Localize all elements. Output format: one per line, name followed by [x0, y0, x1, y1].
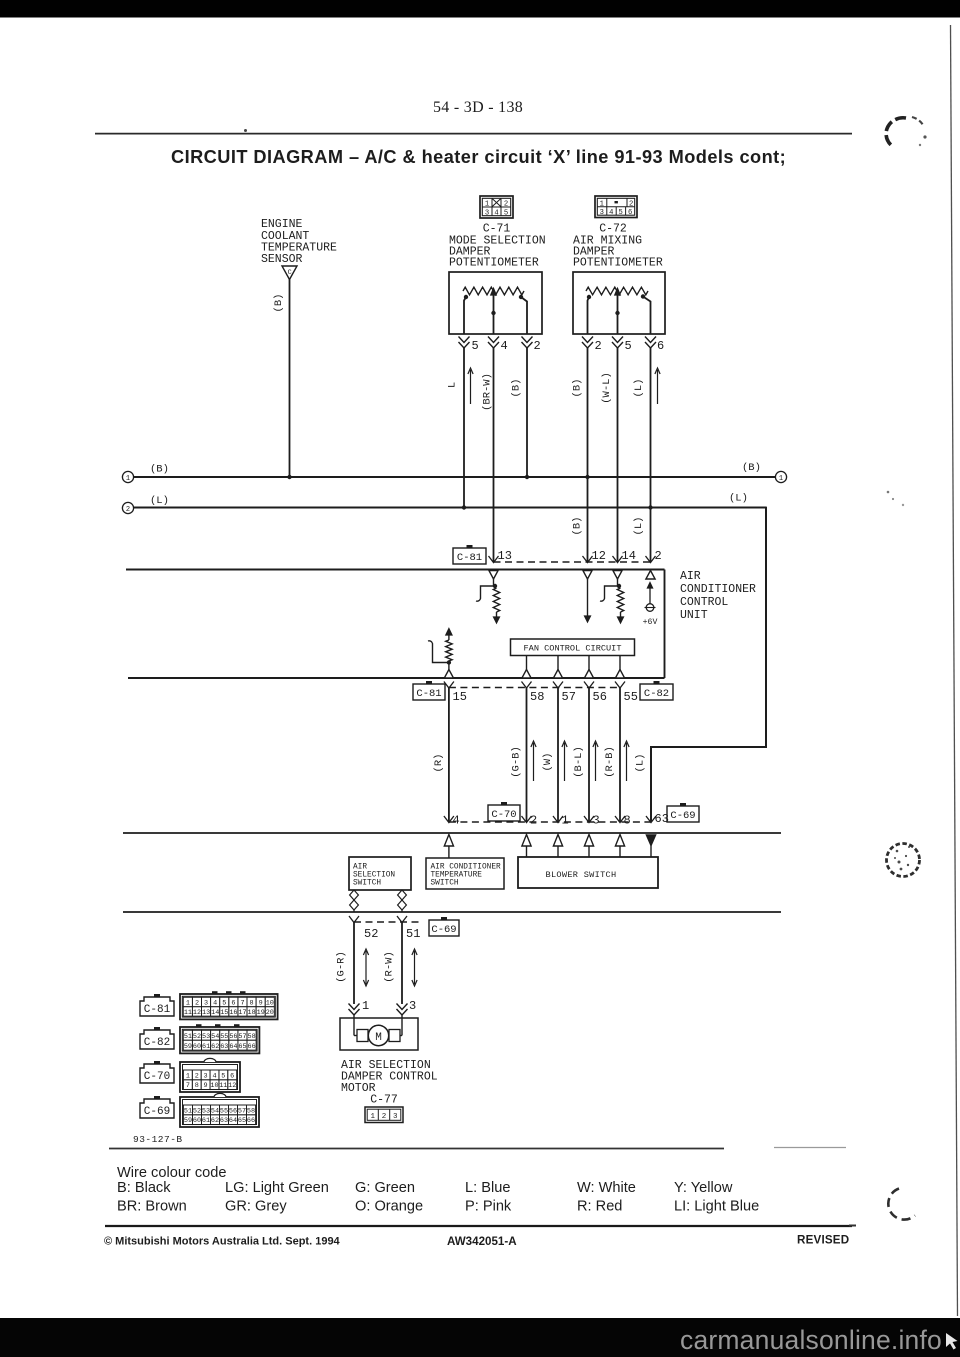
svg-text:18: 18 [248, 1009, 256, 1017]
pin exit 57 [553, 670, 562, 679]
svg-text:53: 53 [202, 1107, 210, 1115]
svg-text:2: 2 [595, 339, 602, 353]
svg-text:AW342051-A: AW342051-A [447, 1235, 517, 1248]
svg-text:M: M [375, 1032, 382, 1044]
pin exit 55 [615, 670, 624, 679]
chevron C-71 pin 5 [459, 337, 470, 343]
connector C-82 pin grid [180, 1027, 259, 1053]
svg-text:(B): (B) [273, 294, 285, 313]
svg-text:R: Red: R: Red [577, 1199, 622, 1215]
svg-text:+6V: +6V [643, 618, 658, 627]
svg-text:1: 1 [562, 814, 569, 828]
connector C-82 icon [154, 1027, 160, 1030]
svg-text:C-70: C-70 [491, 809, 516, 821]
svg-text:58: 58 [530, 690, 544, 704]
svg-text:59: 59 [184, 1117, 192, 1125]
svg-text:(B): (B) [572, 379, 584, 398]
pin entry blower 3 [584, 835, 593, 847]
svg-text:CIRCUIT DIAGRAM – A/C & heater: CIRCUIT DIAGRAM – A/C & heater circuit ‘… [171, 147, 786, 167]
svg-text:4: 4 [212, 1072, 216, 1080]
svg-text:65: 65 [238, 1043, 246, 1051]
svg-text:BR: Brown: BR: Brown [117, 1199, 187, 1215]
node 1 left [122, 471, 133, 482]
fork pin55 [615, 682, 625, 689]
footer rule [105, 1225, 852, 1227]
svg-text:SELECTION: SELECTION [353, 872, 395, 880]
svg-text:9: 9 [204, 1082, 208, 1090]
fork C-81 pin12 [583, 556, 593, 563]
right page-edge line [951, 25, 958, 1316]
svg-text:66: 66 [247, 1117, 255, 1125]
chevron C-72 pin 2 [582, 337, 593, 343]
svg-text:65: 65 [238, 1117, 246, 1125]
svg-text:2: 2 [629, 200, 633, 208]
fork C-81 pin2 [646, 556, 656, 563]
node 1 right [775, 471, 786, 482]
svg-text:2: 2 [382, 1113, 387, 1121]
svg-text:64: 64 [229, 1117, 237, 1125]
svg-text:3: 3 [600, 209, 604, 217]
wire (L) bus [134, 507, 766, 509]
output circuit pin15 [446, 629, 452, 636]
pin entry 2 (+6V) [646, 571, 655, 580]
svg-text:14: 14 [622, 549, 636, 563]
svg-text:C-69: C-69 [144, 1106, 170, 1118]
direction arrow R-B [626, 743, 628, 781]
svg-text:54 - 3D - 138: 54 - 3D - 138 [433, 99, 523, 116]
svg-text:6: 6 [230, 1072, 234, 1080]
svg-text:64: 64 [229, 1043, 237, 1051]
svg-text:5: 5 [619, 209, 623, 217]
direction arrow G-B [533, 743, 535, 781]
motor M symbol [368, 1025, 388, 1045]
svg-text:(L): (L) [633, 517, 645, 536]
wiper arm C-72 [615, 289, 620, 296]
svg-text:1: 1 [362, 999, 369, 1013]
direction arrow B-L [595, 743, 597, 781]
connector label C-81 top [467, 545, 473, 548]
svg-text:C-69: C-69 [670, 810, 695, 822]
fork pin15 [444, 682, 454, 689]
direction arrow pin6 wire [657, 370, 659, 404]
pin entry blower 8 [615, 835, 624, 847]
svg-text:(G-B): (G-B) [511, 746, 523, 778]
svg-text:59: 59 [184, 1043, 192, 1051]
svg-text:17: 17 [238, 1009, 246, 1017]
svg-text:60: 60 [193, 1043, 201, 1051]
fork C-69 pin52 [349, 916, 359, 923]
svg-text:C-81: C-81 [144, 1004, 171, 1016]
scan smudge circle mid right [887, 844, 920, 877]
connector C-72 pin icon [595, 196, 637, 218]
fork C-70 pin3 [584, 816, 594, 823]
svg-text:C-82: C-82 [144, 1037, 170, 1049]
chevron C-72 pin 5 [612, 337, 623, 343]
pin entry blower 63 [646, 835, 655, 846]
svg-text:FAN CONTROL CIRCUIT: FAN CONTROL CIRCUIT [524, 644, 622, 654]
svg-text:C-81: C-81 [457, 552, 482, 564]
svg-text:G: Green: G: Green [355, 1180, 415, 1196]
svg-text:55: 55 [220, 1107, 228, 1115]
pot C-71 left leg pin 5 [464, 297, 466, 334]
fork pin57 [553, 682, 563, 689]
svg-text:SWITCH: SWITCH [353, 880, 381, 888]
svg-text:(L): (L) [633, 379, 645, 398]
svg-text:51: 51 [406, 927, 420, 941]
fork C-69 pin51 [397, 916, 407, 923]
pin exit 15 [444, 670, 453, 679]
svg-text:(BR-W): (BR-W) [482, 373, 494, 411]
svg-text:(G-R): (G-R) [336, 951, 348, 983]
svg-text:L: Blue: L: Blue [465, 1180, 510, 1196]
scan speck group right [887, 491, 890, 494]
svg-text:SWITCH: SWITCH [431, 880, 459, 888]
blower switch box [518, 857, 658, 888]
svg-text:11: 11 [219, 1082, 227, 1090]
fork C-81 pin14 [613, 556, 623, 563]
node 2 left [122, 502, 133, 513]
junction C-72 pin2 on B bus [585, 475, 589, 479]
svg-text:13: 13 [202, 1009, 210, 1017]
fork pin56 [584, 682, 594, 689]
svg-text:57: 57 [562, 690, 576, 704]
connector label C-81 bottom [426, 681, 432, 684]
dashed connector line C-69 lower [354, 921, 420, 923]
svg-text:51: 51 [184, 1107, 192, 1115]
svg-text:POTENTIOMETER: POTENTIOMETER [573, 257, 663, 270]
svg-text:B: Black: B: Black [117, 1180, 171, 1196]
svg-text:Wire colour code: Wire colour code [117, 1165, 227, 1181]
pot C-71 right leg pin 2 [521, 297, 527, 334]
top black banner [0, 0, 960, 18]
svg-text:2: 2 [534, 339, 541, 353]
svg-text:© Mitsubishi Motors Australia: © Mitsubishi Motors Australia Ltd. Sept.… [104, 1236, 341, 1248]
input wire pin12 [587, 579, 589, 616]
connector C-70 icon [154, 1061, 160, 1064]
svg-text:AIR: AIR [353, 864, 367, 872]
svg-text:O: Orange: O: Orange [355, 1199, 423, 1215]
motor internal wiring [353, 1018, 355, 1036]
svg-text:4: 4 [609, 209, 613, 217]
svg-text:6: 6 [657, 339, 664, 353]
cursor arrow in banner [946, 1333, 958, 1350]
connector C-69 pin grid [180, 1097, 259, 1127]
air conditioner temperature switch box [426, 858, 504, 889]
svg-text:L: L [447, 382, 459, 388]
svg-text:56: 56 [593, 690, 607, 704]
scan smudge arc top right [886, 118, 906, 145]
pot C-72 right leg pin 6 [643, 297, 651, 335]
double diamond contact 52 [350, 890, 359, 900]
speck above rule [244, 129, 247, 132]
fork pin58 [522, 682, 532, 689]
svg-text:5: 5 [504, 209, 508, 217]
dashed connector line C-81 [494, 561, 651, 563]
connector C-69 icon [154, 1096, 160, 1099]
svg-text:LG: Light Green: LG: Light Green [225, 1180, 329, 1196]
svg-text:C: C [288, 269, 292, 277]
direction arrow L wire [470, 370, 472, 404]
svg-text:62: 62 [211, 1117, 219, 1125]
svg-text:52: 52 [193, 1107, 201, 1115]
svg-text:1: 1 [600, 200, 604, 208]
pot C-72 left leg pin 2 [588, 297, 590, 334]
svg-text:(L): (L) [150, 495, 169, 507]
connector C-81 pin grid [180, 994, 278, 1019]
svg-text:57: 57 [238, 1107, 246, 1115]
svg-text:54: 54 [211, 1107, 219, 1115]
fork C-70 pin8 [615, 816, 625, 823]
wire (B) bus [134, 476, 776, 478]
chevron C-72 pin 6 [645, 337, 656, 343]
svg-text:7: 7 [186, 1082, 190, 1090]
svg-text:1: 1 [126, 475, 130, 483]
connector C-70 pin grid [180, 1062, 240, 1092]
svg-text:2: 2 [655, 549, 662, 563]
svg-text:4: 4 [501, 339, 508, 353]
svg-text:20: 20 [266, 1009, 274, 1017]
wire C-72 pin6 L to C-81 pin2 [650, 348, 652, 562]
wire 58 G-B [526, 688, 528, 822]
svg-text:SENSOR: SENSOR [261, 253, 303, 266]
wire 55 R-B [619, 688, 621, 822]
svg-text:2: 2 [530, 814, 537, 828]
pin exit 56 [584, 670, 593, 679]
connector C-81 icon [154, 994, 160, 997]
wire C-72 pin5 W-L to C-81 pin14 [617, 348, 619, 562]
svg-text:C-81: C-81 [416, 688, 441, 700]
svg-text:3: 3 [593, 814, 600, 828]
wire C-71 pin4 BR-W to C-81 pin13 [493, 348, 495, 562]
svg-text:15: 15 [453, 690, 467, 704]
fork C-70 pin2 [522, 816, 532, 823]
svg-text:BLOWER SWITCH: BLOWER SWITCH [546, 870, 617, 880]
svg-text:61: 61 [202, 1043, 210, 1051]
svg-text:58: 58 [247, 1107, 255, 1115]
chevron C-71 pin 4 [488, 337, 499, 343]
svg-text:6: 6 [628, 209, 632, 217]
pin entry 14 [613, 571, 622, 580]
connector C-71 pin icon [480, 196, 513, 218]
svg-text:5: 5 [472, 339, 479, 353]
bottom black banner [0, 1318, 960, 1357]
svg-text:C-69: C-69 [431, 924, 456, 936]
dashed connector line C-70 [449, 821, 651, 823]
wire 57 W [557, 688, 559, 822]
resistor element C-72 [586, 287, 648, 295]
svg-text:3: 3 [409, 999, 416, 1013]
pin entry blower 2 [522, 835, 531, 847]
svg-text:56: 56 [229, 1107, 237, 1115]
wire fan box out 58 [526, 656, 528, 671]
pin entry temp switch [444, 835, 453, 847]
svg-text:TEMPERATURE: TEMPERATURE [431, 872, 483, 880]
svg-text:Y: Yellow: Y: Yellow [674, 1180, 733, 1196]
switch feed line [123, 832, 781, 834]
svg-text:15: 15 [220, 1009, 228, 1017]
svg-text:3: 3 [393, 1113, 398, 1121]
connector label C-82 [654, 681, 660, 684]
chevron C-71 pin 2 [522, 337, 533, 343]
air selection damper control motor box [340, 1018, 418, 1050]
svg-text:(L): (L) [635, 754, 647, 773]
svg-text:1: 1 [779, 475, 783, 483]
svg-text:(R-W): (R-W) [384, 951, 396, 983]
svg-text:1: 1 [370, 1113, 375, 1121]
separator line faint segment [774, 1147, 846, 1149]
motor brush right [389, 1030, 400, 1042]
connector label C-69 lower [441, 917, 447, 920]
svg-text:4: 4 [453, 814, 460, 828]
wire 56 B-L [588, 688, 590, 822]
input circuit pin13 [493, 579, 495, 586]
direction arrow R-W [414, 951, 416, 984]
input circuit pin14 [617, 579, 619, 586]
svg-text:12: 12 [193, 1009, 201, 1017]
direction arrow W [564, 743, 566, 781]
svg-text:(B-L): (B-L) [573, 746, 585, 778]
fork C-81 pin13 [489, 556, 499, 563]
svg-text:14: 14 [211, 1009, 219, 1017]
svg-text:C-70: C-70 [144, 1071, 170, 1083]
svg-text:REVISED: REVISED [797, 1234, 849, 1247]
svg-text:CONTROL: CONTROL [680, 596, 728, 609]
svg-text:(R): (R) [433, 754, 445, 773]
svg-text:19: 19 [257, 1009, 265, 1017]
motor brush left [357, 1030, 368, 1042]
fork C-70 pin1 [553, 816, 563, 823]
svg-text:carmanualsonline.info: carmanualsonline.info [680, 1325, 942, 1355]
wire fan box out 56 [588, 656, 590, 671]
junction sensor on B bus [287, 475, 291, 479]
svg-text:8: 8 [195, 1082, 199, 1090]
wire sensor to (B) bus [289, 280, 291, 478]
svg-text:AIR: AIR [680, 570, 701, 583]
svg-text:(B): (B) [742, 462, 761, 474]
pin entry 12 [583, 571, 592, 580]
svg-text:63: 63 [220, 1117, 228, 1125]
svg-text:16: 16 [229, 1009, 237, 1017]
air conditioner control unit box [126, 569, 665, 571]
svg-text:UNIT: UNIT [680, 609, 708, 622]
svg-text:(B): (B) [572, 517, 584, 536]
svg-text:POTENTIOMETER: POTENTIOMETER [449, 257, 539, 270]
svg-text:2: 2 [195, 1072, 199, 1080]
pin entry 13 [489, 571, 498, 580]
wire pin15 R [448, 688, 450, 822]
scan smudge circle bottom right [888, 1189, 915, 1220]
svg-text:63: 63 [220, 1043, 228, 1051]
svg-text:11: 11 [184, 1009, 192, 1017]
chevron motor pin3 [397, 1004, 408, 1010]
svg-text:13: 13 [498, 549, 512, 563]
chevron motor pin1 [349, 1004, 360, 1010]
svg-text:(B): (B) [150, 464, 169, 476]
svg-text:5: 5 [625, 339, 632, 353]
svg-text:3: 3 [204, 1072, 208, 1080]
svg-text:W: White: W: White [577, 1180, 636, 1196]
svg-text:3: 3 [485, 209, 489, 217]
wire 52 G-R [353, 922, 355, 1004]
connector C-77 icon [365, 1107, 403, 1123]
connector label C-70 [501, 802, 507, 805]
lower section line [123, 911, 781, 913]
svg-text:62: 62 [211, 1043, 219, 1051]
svg-text:60: 60 [193, 1117, 201, 1125]
separator line above legend [109, 1148, 724, 1150]
svg-text:52: 52 [364, 927, 378, 941]
resistor element C-71 [463, 287, 524, 295]
pin entry blower 1 [553, 835, 562, 847]
svg-text:AIR CONDITIONER: AIR CONDITIONER [431, 864, 502, 872]
svg-text:1: 1 [485, 201, 489, 209]
svg-text:12: 12 [228, 1082, 236, 1090]
header rule [95, 133, 852, 135]
svg-text:C-82: C-82 [644, 688, 669, 700]
sensor symbol (triangle C) [282, 266, 297, 280]
wire C-71 pin2 B [526, 348, 528, 477]
wire fan box out 55 [619, 656, 621, 671]
potentiometer C-71 box [449, 272, 542, 334]
air selection switch box [349, 857, 411, 890]
svg-text:10: 10 [210, 1082, 218, 1090]
fan control circuit box [511, 639, 635, 656]
svg-text:2: 2 [126, 506, 130, 514]
+6V supply symbol [649, 583, 651, 604]
fork C-70 pin4 [444, 816, 454, 823]
double diamond contact 51 [398, 890, 407, 900]
svg-text:(B): (B) [511, 379, 523, 398]
potentiometer C-72 box [573, 272, 665, 334]
svg-text:5: 5 [221, 1072, 225, 1080]
junction C-71 pin5 on L bus [462, 505, 466, 509]
svg-text:4: 4 [494, 209, 498, 217]
fork C-69 pin63 [646, 816, 656, 823]
dashed connector line C-81/C-82 [449, 687, 620, 689]
pin exit 58 [522, 670, 531, 679]
svg-text:1: 1 [186, 1072, 190, 1080]
svg-text:P: Pink: P: Pink [465, 1199, 512, 1215]
junction C-72 pin6 on L bus [648, 505, 652, 509]
junction C-71 pin2 on B bus [525, 475, 529, 479]
svg-text:(W-L): (W-L) [601, 372, 613, 404]
svg-text:93-127-B: 93-127-B [133, 1134, 183, 1145]
direction arrow G-R [365, 951, 367, 984]
svg-text:LI: Light Blue: LI: Light Blue [674, 1199, 759, 1215]
svg-text:55: 55 [624, 690, 638, 704]
svg-text:2: 2 [504, 201, 508, 209]
svg-text:(R-B): (R-B) [604, 746, 616, 778]
wiper arm C-71 [491, 289, 496, 296]
svg-text:12: 12 [592, 549, 606, 563]
wire fan box out 57 [557, 656, 559, 671]
svg-text:66: 66 [248, 1043, 256, 1051]
wire (L) loop to C-69 pin63 [651, 507, 766, 822]
svg-text:8: 8 [624, 814, 631, 828]
svg-text:61: 61 [202, 1117, 210, 1125]
svg-text:CONDITIONER: CONDITIONER [680, 583, 756, 596]
svg-text:(L): (L) [729, 493, 748, 505]
connector label C-69 upper [680, 803, 686, 806]
scan speck dash [849, 1225, 856, 1227]
svg-text:GR: Grey: GR: Grey [225, 1199, 287, 1215]
wire 51 R-W [401, 922, 403, 1004]
wire C-72 pin2 B to C-81 pin12 [587, 348, 589, 562]
svg-text:C-77: C-77 [370, 1094, 398, 1107]
svg-text:(W): (W) [542, 753, 554, 772]
wire C-71 pin5 L [463, 348, 465, 508]
